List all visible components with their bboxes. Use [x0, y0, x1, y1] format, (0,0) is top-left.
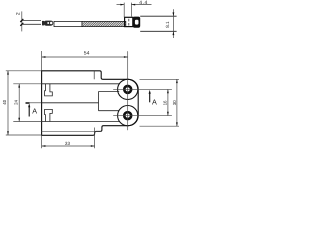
knob groove (white notch)	[135, 20, 139, 25]
sleeve body (dark with ball holes)	[44, 21, 54, 26]
dimension 8.1: dim line	[172, 9, 174, 38]
knurled knob (solid black)	[133, 17, 140, 28]
dimension 2: tick bottom	[20, 23, 23, 26]
section arrow right head	[149, 90, 151, 94]
extension line tab top	[140, 78, 180, 80]
dimension 33: left extension	[41, 135, 43, 148]
dimension 40: bottom extension	[6, 134, 42, 136]
bottom eyelet horizontal centerline	[113, 115, 172, 117]
dimension 30: top arrow	[176, 79, 178, 83]
dimension 2: tick top	[20, 19, 23, 22]
eyelet bottom: bushing ring	[124, 112, 131, 119]
section arrow left head	[28, 103, 30, 107]
dimension 15: bottom arrow	[167, 112, 169, 116]
release pin rod bottom line	[22, 23, 41, 25]
dimension 24: top arrow	[18, 84, 20, 88]
ball hole 1	[47, 22, 49, 24]
svg-text:30: 30	[172, 100, 177, 105]
bracket outline	[42, 71, 139, 136]
svg-text:2: 2	[15, 12, 21, 15]
dimension 8.1: top arrow	[173, 12, 175, 16]
pocket right wall	[98, 92, 100, 111]
dimension 54: dim line	[42, 56, 128, 58]
top eyelet horizontal centerline	[113, 88, 172, 90]
svg-text:54: 54	[84, 51, 90, 57]
dimension 54: left arrow	[42, 56, 46, 58]
dimension 30: dim line	[176, 79, 178, 126]
outer sheath plain section	[54, 21, 82, 26]
bottom boss (T-tab)	[45, 109, 53, 121]
dimension 33: right extension	[94, 128, 96, 149]
svg-text:A: A	[152, 97, 157, 106]
top pocket inner edge	[42, 83, 120, 85]
dimension 24: dim line	[18, 84, 20, 122]
section line A-A: left segment	[26, 102, 42, 104]
collar at rod end (dark)	[42, 21, 44, 26]
dimension 4.4: right extension line	[130, 3, 132, 17]
dimension 40: bottom arrow	[7, 131, 9, 135]
dimension 33: right arrow	[91, 145, 95, 147]
faint bottom step line	[42, 130, 101, 132]
section arrow left shaft	[28, 105, 30, 116]
dimension 15: dim line	[167, 89, 169, 115]
svg-text:4.4: 4.4	[139, 0, 147, 6]
edge line top right	[93, 71, 95, 80]
section arrow right shaft	[149, 92, 151, 102]
release pin rod top line	[22, 20, 41, 22]
web bottom edge	[99, 110, 120, 112]
eyelet bottom: outer circle	[118, 106, 138, 126]
dimension 24: top extension	[13, 83, 41, 85]
top boss (T-tab)	[45, 84, 53, 96]
svg-text:16: 16	[162, 100, 167, 105]
dimension 33: dim line	[42, 145, 95, 147]
section line A-A: left thick end	[26, 102, 30, 104]
bottom pocket inner edge	[42, 121, 120, 123]
dimension 54: left extension	[41, 51, 43, 71]
dimension 30: bottom arrow	[176, 122, 178, 126]
end cap housing	[125, 17, 133, 26]
eyelet top: outer circle	[118, 79, 138, 99]
dimension 33: left arrow	[42, 145, 46, 147]
outer sheath braided hatched section	[82, 21, 126, 26]
svg-text:33: 33	[65, 141, 71, 146]
eyelet top: bushing ring	[124, 86, 131, 93]
web top edge	[99, 91, 120, 93]
dimension 4.4: right arrow	[131, 4, 135, 6]
svg-text:A: A	[32, 107, 37, 116]
svg-text:24: 24	[14, 99, 19, 104]
ball hole 2	[50, 22, 53, 25]
cylinder body top line	[140, 15, 176, 17]
slit line	[42, 102, 99, 104]
vertical centerline through eyelets / 54 right extension	[127, 51, 129, 130]
dimension 4.4: line right tail	[131, 4, 151, 6]
hidden line in cap	[128, 19, 130, 26]
dimension 24: bottom arrow	[18, 118, 20, 122]
svg-text:8.1: 8.1	[165, 21, 170, 28]
dimension 40: dim line	[7, 71, 9, 135]
extension line tab bottom	[140, 125, 180, 127]
dimension 4.4: left arrow	[120, 4, 124, 6]
dimension 40: top arrow	[7, 71, 9, 75]
dimension 24: bottom extension	[13, 121, 41, 123]
dimension 2: dim line vertical	[21, 11, 23, 31]
cylinder body bottom line	[140, 30, 176, 32]
dimension 15: top arrow	[167, 89, 169, 93]
svg-text:40: 40	[2, 99, 7, 104]
dimension 4.4: line left tail	[117, 4, 125, 6]
dimension 54: right arrow	[124, 56, 128, 58]
dimension 4.4: left extension line	[123, 3, 125, 18]
dimension 8.1: bottom arrow	[173, 31, 175, 35]
dimension 40: top extension	[6, 70, 42, 72]
